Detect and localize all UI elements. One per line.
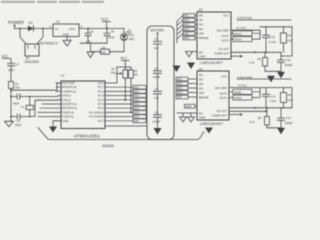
svg-text:M2: M2 [199, 78, 203, 82]
svg-text:500pF: 500pF [285, 121, 293, 125]
svg-text:CS OUT: CS OUT [218, 47, 229, 51]
svg-text:DAC REF: DAC REF [217, 29, 230, 33]
svg-text:M21: M21 [177, 77, 183, 81]
svg-text:U1: U1 [56, 20, 60, 24]
svg-text:C3: C3 [155, 87, 159, 91]
svg-text:MXB1: MXB1 [235, 90, 243, 94]
svg-text:110uF: 110uF [153, 119, 161, 123]
wires mcu right [105, 87, 133, 121]
svg-text:5.1k: 5.1k [249, 60, 255, 64]
svg-text:10k: 10k [111, 70, 116, 74]
capacitor C7 [8, 63, 15, 81]
resistor R3 [129, 70, 134, 78]
svg-text:DIR: DIR [134, 119, 139, 123]
svg-text:M13: M13 [184, 23, 190, 27]
svg-text:M11: M11 [134, 85, 139, 89]
wire motor2 [237, 78, 291, 80]
svg-text:C5: C5 [90, 30, 94, 34]
svg-text:M2: M2 [199, 18, 203, 22]
wire bottom ground run [38, 128, 204, 140]
svg-text:GND: GND [199, 55, 205, 59]
svg-text:GND: GND [199, 116, 205, 120]
svg-text:C12: C12 [270, 94, 276, 98]
svg-text:M24: M24 [177, 91, 183, 95]
svg-text:M4: M4 [199, 27, 203, 31]
capacitor C5 [85, 29, 91, 44]
svg-text:4 VCC: 4 VCC [238, 84, 248, 88]
svg-text:M3: M3 [199, 82, 203, 86]
svg-text:C11: C11 [286, 58, 291, 62]
svg-text:GND: GND [63, 33, 71, 37]
node crystal net junctions [10, 96, 12, 98]
wire motor1 [237, 19, 291, 21]
net labels right of mcu [133, 85, 146, 122]
ground mcu [49, 127, 57, 133]
node junction [42, 28, 44, 30]
svg-text:DIR: DIR [199, 32, 204, 36]
capacitor C6 [104, 29, 110, 44]
svg-text:10k: 10k [15, 86, 20, 90]
svg-text:M11: M11 [184, 14, 189, 18]
crystal Y1 [26, 105, 34, 109]
svg-text:MOTOR1: MOTOR1 [151, 29, 165, 33]
capacitor C9 30pF [11, 100, 61, 119]
capacitor C4 [154, 115, 162, 118]
net labels U3 left [183, 14, 195, 40]
svg-text:10uF: 10uF [108, 35, 115, 39]
svg-text:C1: C1 [155, 37, 159, 41]
svg-text:M3: M3 [199, 23, 203, 27]
svg-text:M14: M14 [184, 27, 190, 31]
wire cs out rail [231, 51, 281, 53]
svg-text:R8: R8 [288, 93, 292, 97]
wire cap rail [80, 42, 107, 44]
svg-text:R3: R3 [134, 69, 138, 73]
svg-text:VCC: VCC [101, 18, 109, 22]
resistor R4 [283, 27, 285, 53]
net label GND U4 [185, 104, 196, 108]
svg-text:OUT2: OUT2 [220, 96, 228, 100]
svg-text:1uF: 1uF [154, 46, 159, 50]
svg-text:LMD18245T: LMD18245T [200, 60, 223, 65]
net labels U4 left [176, 77, 188, 99]
capacitor C12 [263, 88, 270, 108]
ground U4 rc/gnd [177, 113, 197, 117]
ground crystal [5, 121, 14, 127]
caption text row [1, 1, 104, 3]
svg-text:30pF: 30pF [15, 123, 22, 127]
svg-text:470: 470 [101, 50, 106, 54]
net labels U4 right [233, 89, 252, 100]
ground between drivers [173, 60, 181, 72]
ground rail [87, 43, 94, 57]
wire U4 dac rail [229, 88, 292, 97]
svg-text:LED: LED [129, 37, 134, 41]
svg-text:VCC: VCC [120, 57, 127, 61]
svg-text:M4: M4 [199, 87, 203, 91]
capacitor C11 [278, 52, 285, 72]
svg-text:10k: 10k [133, 73, 138, 77]
svg-text:VCC: VCC [2, 55, 9, 59]
wire U3 dac rail [231, 27, 292, 39]
svg-text:DIR: DIR [199, 91, 204, 95]
svg-text:SOLDER: SOLDER [25, 60, 40, 64]
svg-text:R2: R2 [112, 67, 116, 71]
wire right edge 2 [291, 88, 293, 108]
svg-text:C6: C6 [111, 30, 115, 34]
svg-text:BRK: BRK [184, 36, 190, 40]
svg-text:DIR: DIR [177, 95, 182, 99]
wire P3.7 run [106, 125, 146, 127]
capacitor C10 [263, 27, 270, 53]
svg-text:BRAKE: BRAKE [199, 96, 209, 100]
wire rc rail 2 [229, 110, 267, 112]
svg-text:LMD18245T: LMD18245T [200, 121, 223, 126]
svg-text:14 VCC: 14 VCC [236, 26, 247, 30]
svg-text:DIR: DIR [184, 32, 189, 36]
svg-text:Y1: Y1 [21, 105, 25, 109]
svg-text:M22: M22 [177, 82, 183, 86]
ground C13 [277, 128, 285, 134]
svg-text:M21: M21 [134, 102, 140, 106]
text fragment bottom [102, 145, 114, 148]
svg-text:5.1k: 5.1k [250, 120, 256, 124]
svg-text:DAC REF: DAC REF [215, 86, 228, 90]
wire mcu gnd [53, 121, 61, 127]
svg-text:COMP OUT: COMP OUT [214, 52, 229, 56]
svg-text:M24: M24 [134, 115, 140, 119]
wire battery drops [20, 29, 43, 45]
battery holder B1 [25, 44, 39, 56]
wire regulator out [79, 28, 124, 30]
svg-text:P3.7: P3.7 [98, 119, 105, 123]
svg-text:M14: M14 [134, 98, 140, 102]
svg-text:VCC: VCC [223, 14, 229, 18]
svg-text:M22: M22 [134, 106, 140, 110]
svg-text:MXB2: MXB2 [235, 96, 243, 100]
svg-text:10uF: 10uF [8, 68, 15, 72]
svg-text:U3: U3 [199, 8, 203, 12]
svg-text:OUT1: OUT1 [220, 92, 228, 96]
svg-text:GND: GND [186, 104, 192, 108]
svg-text:M1: M1 [199, 14, 203, 18]
node junction [19, 28, 21, 30]
svg-text:OUT: OUT [69, 27, 76, 31]
capacitor C13 [278, 108, 285, 128]
svg-text:1.2uF: 1.2uF [269, 99, 276, 103]
resistor R2 [123, 70, 128, 78]
ground cap column [154, 128, 162, 135]
svg-text:D1: D1 [29, 21, 33, 25]
ground bottom wire end [205, 124, 213, 134]
svg-text:R4: R4 [288, 34, 292, 38]
svg-text:GND: GND [62, 119, 70, 123]
svg-text:OUT2: OUT2 [222, 39, 230, 43]
ground mid right [267, 72, 275, 83]
svg-text:1.2uF: 1.2uF [269, 40, 276, 44]
svg-text:110uF: 110uF [153, 75, 161, 79]
svg-text:500pF: 500pF [285, 63, 293, 67]
svg-text:BRAKE: BRAKE [199, 36, 209, 40]
svg-text:M12: M12 [134, 90, 140, 94]
svg-text:M1: M1 [199, 73, 203, 77]
wire comp out arrow 2 [229, 114, 240, 116]
svg-text:AT89C2051: AT89C2051 [74, 134, 100, 139]
wire cs out rail 2 [229, 107, 292, 109]
svg-text:C7: C7 [16, 63, 20, 67]
svg-text:IN: IN [55, 27, 58, 31]
capacitor C2 [154, 71, 162, 74]
svg-text:LM7805CT: LM7805CT [38, 41, 59, 45]
wire fan U3 [177, 16, 183, 44]
svg-text:4 MOTOR1: 4 MOTOR1 [237, 16, 253, 20]
wire main power [15, 28, 54, 30]
svg-text:R5: R5 [258, 57, 262, 61]
svg-text:30pF: 30pF [13, 102, 20, 106]
net labels U3 right [233, 31, 252, 42]
svg-text:POWER: POWER [8, 20, 24, 25]
svg-text:COMP OUT: COMP OUT [212, 114, 227, 118]
resistor R8 [283, 88, 285, 108]
svg-text:M23: M23 [134, 111, 140, 115]
svg-text:VCC: VCC [221, 75, 227, 79]
svg-text:U2: U2 [61, 74, 65, 78]
svg-text:MXA2: MXA2 [235, 38, 243, 42]
svg-text:R9: R9 [258, 116, 262, 120]
resistor R1 [9, 82, 14, 89]
svg-text:C2: C2 [155, 66, 159, 70]
svg-text:C13: C13 [286, 116, 292, 120]
svg-text:C4: C4 [155, 110, 159, 114]
wire reset [11, 83, 61, 90]
capacitor group box [147, 26, 174, 140]
ground U3 left pin [186, 52, 198, 57]
capacitor C8 30pF [11, 94, 61, 99]
svg-text:M23: M23 [177, 86, 183, 90]
wire vcc mcu [105, 67, 117, 83]
LED XD1 [123, 29, 125, 34]
svg-text:CS OUT: CS OUT [216, 109, 227, 113]
wire right edge [281, 27, 292, 56]
ground regulator [66, 37, 68, 41]
svg-text:MXA1: MXA1 [235, 32, 243, 36]
svg-text:OUT1: OUT1 [222, 34, 230, 38]
wire rst arrow [115, 73, 120, 75]
wire power arrow [14, 25, 16, 29]
ground C11 [277, 72, 285, 78]
capacitor C1 [154, 42, 162, 45]
wire cap column [157, 33, 159, 128]
svg-text:M13: M13 [134, 94, 140, 98]
svg-text:M12: M12 [184, 18, 190, 22]
svg-text:1uF: 1uF [154, 96, 159, 100]
wire comp out arrow [231, 55, 240, 57]
capacitor C3 [154, 91, 162, 94]
wire left stubs [38, 83, 61, 117]
svg-text:C10: C10 [270, 35, 276, 39]
